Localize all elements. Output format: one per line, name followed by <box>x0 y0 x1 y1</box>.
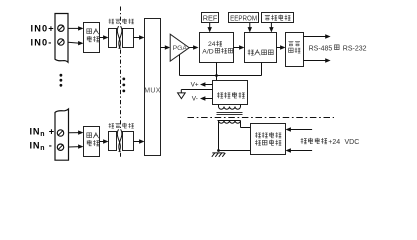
svg-text:IN0-: IN0- <box>31 37 53 47</box>
svg-text:RS-485: RS-485 <box>309 45 333 52</box>
svg-text:MUX: MUX <box>144 87 160 94</box>
svg-text:24: 24 <box>208 41 216 48</box>
svg-text:REF: REF <box>203 13 218 22</box>
svg-text:PGA: PGA <box>173 45 188 52</box>
svg-text:V-: V- <box>192 96 198 103</box>
svg-text:+24: +24 <box>328 139 340 146</box>
svg-text:VDC: VDC <box>345 139 360 146</box>
svg-text:V+: V+ <box>191 81 199 88</box>
svg-text:RS-232: RS-232 <box>343 45 367 52</box>
svg-text:EEPROM: EEPROM <box>230 14 257 23</box>
svg-text:IN0+: IN0+ <box>31 23 55 33</box>
svg-text:A/D: A/D <box>202 49 213 56</box>
